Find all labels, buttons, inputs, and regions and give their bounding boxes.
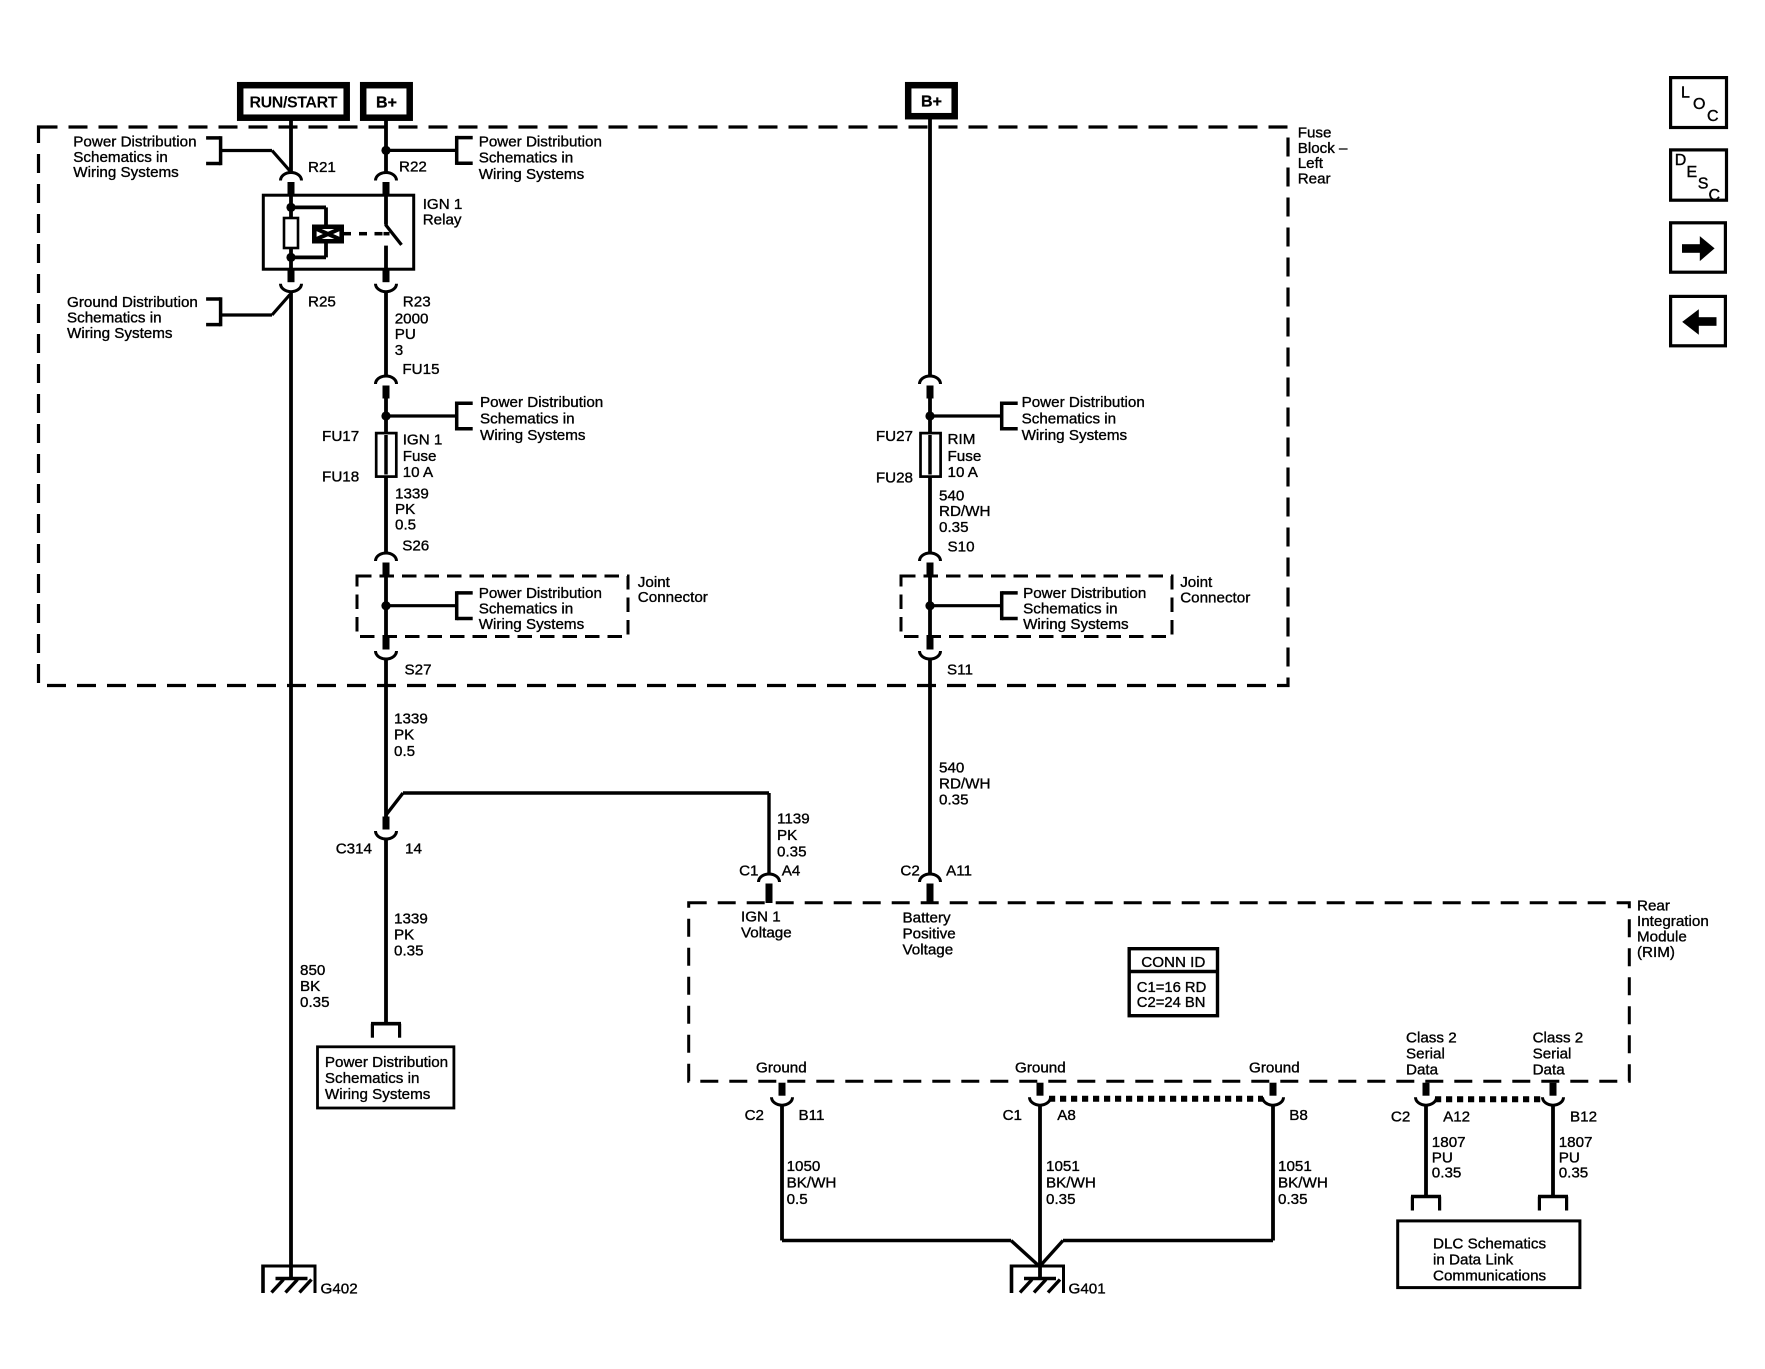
DESC icon box (1671, 150, 1727, 204)
svg-text:BK/WH: BK/WH (1046, 1174, 1096, 1191)
svg-text:1051: 1051 (1278, 1158, 1312, 1175)
svg-text:S27: S27 (405, 661, 432, 678)
connector R21 (281, 173, 302, 196)
svg-text:DLC Schematics: DLC Schematics (1433, 1235, 1547, 1252)
connector B8 (1263, 1083, 1284, 1106)
connector R25 (281, 269, 302, 292)
label Battery Positive Voltage (903, 909, 956, 958)
svg-text:0.5: 0.5 (787, 1191, 808, 1208)
label wire 1339 PK 0.5 (395, 485, 429, 533)
wire loop right upper (324, 207, 328, 224)
svg-text:1339: 1339 (394, 710, 428, 727)
label Class 2 Serial Data (A12) (1406, 1029, 1457, 1078)
power feed box B+ (right) (908, 85, 955, 116)
wire-end bracket (B12) (1538, 1197, 1568, 1211)
svg-text:Joint: Joint (1180, 574, 1213, 591)
switch blade (385, 225, 401, 245)
svg-text:14: 14 (405, 840, 422, 857)
relay coil (312, 225, 344, 244)
svg-text:IGN 1: IGN 1 (403, 431, 443, 448)
svg-text:RD/WH: RD/WH (939, 775, 990, 792)
wire B8 to G401 (1041, 1241, 1274, 1266)
svg-text:Data: Data (1406, 1061, 1439, 1078)
svg-text:Schematics in: Schematics in (325, 1070, 420, 1087)
svg-text:540: 540 (939, 759, 964, 776)
svg-text:FU27: FU27 (876, 428, 913, 445)
junction S10/S11 (925, 601, 934, 610)
fuse RIM 10A (921, 433, 941, 477)
joint connector dashed box (right) (901, 576, 1172, 637)
connector C2/A11 (920, 874, 941, 897)
label Joint Connector (right) (1180, 574, 1250, 607)
fuse block dashed boundary (39, 127, 1289, 686)
leader to label (FU15) (386, 414, 455, 417)
svg-text:A12: A12 (1443, 1108, 1470, 1125)
svg-text:Power Distribution: Power Distribution (480, 394, 603, 411)
wire fuse to S26 (384, 477, 388, 553)
wire FU15 to fuse (384, 399, 388, 434)
svg-text:A4: A4 (782, 862, 801, 879)
connector FU27 top (920, 376, 941, 399)
wire 850 BK to G402 (289, 292, 293, 1279)
svg-text:Wiring Systems: Wiring Systems (73, 164, 179, 181)
svg-text:Wiring Systems: Wiring Systems (480, 427, 586, 444)
label Power Distribution Schematics (joint right) (1023, 585, 1146, 633)
reference box Power Distribution Schematics in Wiring Systems (318, 1047, 454, 1108)
wire 1807 PU (A12) (1424, 1105, 1428, 1197)
svg-text:Schematics in: Schematics in (1022, 411, 1117, 428)
ground G401 (1012, 1265, 1064, 1294)
svg-text:G402: G402 (321, 1280, 358, 1297)
wire loop top (291, 205, 326, 209)
bracket (top left label) (206, 136, 221, 165)
svg-text:0.35: 0.35 (1432, 1165, 1462, 1182)
wire switch lower (384, 246, 388, 270)
label Class 2 Serial Data (B12) (1533, 1029, 1584, 1078)
connector S27 (376, 637, 397, 660)
svg-text:Schematics in: Schematics in (480, 411, 575, 428)
label Power Distribution Schematics (joint left) (479, 585, 602, 633)
svg-text:C1=16 RD: C1=16 RD (1137, 980, 1207, 996)
coil lead (344, 232, 351, 236)
svg-text:10 A: 10 A (948, 464, 979, 481)
svg-text:B11: B11 (799, 1107, 825, 1124)
svg-text:PK: PK (395, 501, 415, 518)
junction (FU15 feed) (381, 411, 390, 420)
svg-text:3: 3 (395, 342, 403, 359)
label Power Distribution Schematics (FU15) (480, 394, 603, 444)
label IGN 1 Fuse 10 A (403, 431, 443, 481)
label wire 2000 PU 3 (395, 310, 429, 358)
bracket (FU27 label) (1002, 402, 1018, 431)
svg-text:FU15: FU15 (402, 361, 439, 378)
svg-text:0.35: 0.35 (1559, 1165, 1589, 1182)
svg-text:Integration: Integration (1637, 913, 1709, 930)
svg-text:Class 2: Class 2 (1406, 1029, 1457, 1046)
svg-text:Wiring Systems: Wiring Systems (479, 616, 585, 633)
leader to label (joint right) (930, 604, 1000, 607)
leader to label (joint left) (386, 604, 455, 607)
svg-text:0.35: 0.35 (394, 942, 424, 959)
leader to R21 (221, 151, 290, 172)
Rear Integration Module dashed box (689, 903, 1630, 1081)
svg-text:PK: PK (394, 926, 414, 943)
leader to R25 (221, 295, 290, 316)
LOC icon box (1671, 78, 1727, 128)
svg-text:Rear: Rear (1637, 897, 1670, 914)
label wire 1050 BK/WH 0.5 (787, 1158, 837, 1208)
svg-text:FU17: FU17 (322, 428, 359, 445)
svg-text:R22: R22 (399, 158, 427, 175)
svg-text:R21: R21 (308, 159, 336, 176)
wire-end bracket (power dist) (371, 1024, 401, 1038)
fuse IGN 1 10A (376, 433, 396, 477)
label wire 1807 PU 0.35 (B12) (1559, 1134, 1593, 1182)
svg-text:Voltage: Voltage (741, 924, 792, 941)
svg-text:C1: C1 (739, 862, 758, 879)
svg-text:1807: 1807 (1432, 1134, 1466, 1151)
svg-text:540: 540 (939, 487, 964, 504)
svg-text:BK/WH: BK/WH (787, 1174, 837, 1191)
label wire 1339 PK 0.35 (394, 910, 428, 959)
junction S26/S27 (381, 601, 390, 610)
wire R23 to FU15 (384, 292, 388, 376)
junction (relay bottom left) (286, 253, 295, 262)
wire through fuse (384, 435, 388, 475)
svg-text:S: S (1698, 176, 1709, 193)
label wire 1051 BK/WH 0.35 (A8) (1046, 1158, 1096, 1208)
junction on R22 wire (381, 146, 390, 155)
svg-text:C: C (1707, 108, 1719, 125)
svg-text:FU28: FU28 (876, 469, 913, 486)
connector C1/A4 (759, 874, 780, 897)
svg-text:C: C (1709, 187, 1721, 204)
svg-text:Connector: Connector (638, 589, 708, 606)
ground G402 (263, 1265, 315, 1294)
svg-text:Class 2: Class 2 (1533, 1029, 1584, 1046)
wire loop bottom (291, 255, 326, 259)
svg-text:1339: 1339 (395, 485, 429, 502)
svg-text:0.35: 0.35 (1046, 1191, 1076, 1208)
resistor (relay coil suppression) (284, 218, 298, 248)
svg-text:850: 850 (300, 962, 325, 979)
svg-text:B12: B12 (1570, 1108, 1597, 1125)
svg-text:Fuse: Fuse (403, 448, 437, 465)
svg-text:Ground: Ground (756, 1059, 807, 1076)
connector FU15 (376, 376, 397, 399)
connector B12 (1543, 1083, 1564, 1106)
svg-text:R25: R25 (308, 293, 336, 310)
svg-text:0.35: 0.35 (939, 519, 969, 536)
branch wire to RIM C1/A4 (386, 793, 769, 874)
svg-text:1050: 1050 (787, 1158, 821, 1175)
svg-text:0.35: 0.35 (939, 791, 969, 808)
svg-text:RIM: RIM (948, 431, 976, 448)
svg-text:Wiring Systems: Wiring Systems (67, 325, 173, 342)
wire FU27 arc to fuse (928, 399, 932, 434)
svg-text:B+: B+ (376, 95, 397, 112)
next-page arrow icon (1671, 223, 1726, 272)
svg-text:Schematics in: Schematics in (479, 150, 574, 167)
wire S27 to C314 (384, 659, 388, 817)
label wire 540 RD/WH 0.35 (lower) (939, 759, 990, 808)
svg-text:PK: PK (777, 827, 797, 844)
label Power Distribution Schematics (top left) (73, 134, 196, 182)
leader to label (FU27) (930, 414, 1000, 417)
label Power Distribution Schematics (FU27) (1022, 394, 1145, 444)
svg-text:Power Distribution: Power Distribution (325, 1054, 448, 1071)
svg-text:A8: A8 (1057, 1107, 1076, 1124)
svg-text:CONN ID: CONN ID (1141, 954, 1205, 971)
stub C1/A4 into RIM (766, 884, 773, 903)
label IGN 1 Voltage (741, 908, 792, 941)
svg-text:0.35: 0.35 (1278, 1191, 1308, 1208)
svg-text:Connector: Connector (1180, 590, 1250, 607)
label wire 1051 BK/WH 0.35 (B8) (1278, 1158, 1328, 1208)
svg-text:Data: Data (1533, 1061, 1566, 1078)
wire 1051 BK/WH (A8) (1038, 1105, 1042, 1279)
svg-text:Ground: Ground (1015, 1059, 1066, 1076)
label wire 1139 PK 0.35 (777, 810, 810, 860)
bracket (ground dist label) (206, 297, 221, 326)
junction (relay top left) (286, 203, 295, 212)
svg-text:PK: PK (394, 726, 414, 743)
wire B+ to R22 (384, 118, 388, 173)
bracket (joint left label) (457, 591, 473, 620)
svg-text:0.5: 0.5 (394, 743, 415, 760)
wire relay pin R21 to resistor (289, 195, 293, 218)
svg-text:0.35: 0.35 (300, 994, 330, 1011)
svg-text:Rear: Rear (1298, 170, 1331, 187)
svg-text:Ground: Ground (1249, 1059, 1300, 1076)
svg-text:Power Distribution: Power Distribution (479, 585, 602, 602)
svg-text:A11: A11 (946, 862, 972, 879)
wire fuse to S10 (928, 477, 932, 553)
svg-text:Positive: Positive (903, 925, 956, 942)
wire 1050 BK/WH (780, 1105, 784, 1241)
connector S11 (920, 637, 941, 660)
dotted internal link A8-B8 (1049, 1096, 1263, 1102)
dotted internal link A12-B12 (1435, 1096, 1543, 1102)
wire resistor to relay pin R25 (289, 248, 293, 269)
label Fuse Block - Left Rear (1298, 125, 1348, 188)
svg-text:BK: BK (300, 978, 320, 995)
svg-text:1139: 1139 (777, 810, 810, 827)
svg-text:PU: PU (395, 326, 416, 343)
svg-text:R23: R23 (403, 293, 431, 310)
wire loop right lower (324, 244, 328, 258)
svg-text:D: D (1675, 152, 1687, 169)
svg-text:C2: C2 (900, 862, 919, 879)
wire RUN/START to R21 (289, 118, 293, 173)
svg-text:O: O (1693, 96, 1705, 113)
power feed box B+ (left) (363, 85, 410, 118)
connector C2/A12 (1416, 1083, 1437, 1106)
label Rear Integration Module (RIM) (1637, 897, 1709, 961)
svg-text:Relay: Relay (423, 211, 462, 228)
label Joint Connector (left) (638, 574, 708, 606)
svg-text:RD/WH: RD/WH (939, 503, 990, 520)
svg-text:Wiring Systems: Wiring Systems (479, 166, 585, 183)
leader to label (R22) (386, 149, 455, 152)
svg-text:0.5: 0.5 (395, 517, 416, 534)
svg-text:C2: C2 (745, 1107, 764, 1124)
connector C2/B11 (772, 1083, 793, 1106)
svg-text:Schematics in: Schematics in (479, 600, 574, 617)
svg-text:B+: B+ (921, 94, 942, 111)
svg-text:Wiring Systems: Wiring Systems (1023, 616, 1129, 633)
svg-text:Wiring Systems: Wiring Systems (325, 1086, 431, 1103)
wire 1807 PU (B12) (1551, 1105, 1555, 1197)
label Power Distribution Schematics (R22) (479, 133, 602, 183)
svg-text:Voltage: Voltage (903, 941, 954, 958)
wire C314 to power dist box (384, 839, 388, 1024)
label wire 1339 PK 0.5 (lower) (394, 710, 428, 760)
svg-text:Battery: Battery (903, 909, 952, 926)
svg-text:E: E (1687, 164, 1698, 181)
svg-text:S26: S26 (402, 537, 429, 554)
svg-text:Power Distribution: Power Distribution (1023, 585, 1146, 602)
svg-text:Power Distribution: Power Distribution (1022, 394, 1145, 411)
svg-text:in Data Link: in Data Link (1433, 1251, 1514, 1268)
svg-text:Serial: Serial (1533, 1045, 1572, 1062)
svg-text:G401: G401 (1069, 1280, 1106, 1297)
svg-text:BK/WH: BK/WH (1278, 1174, 1328, 1191)
svg-text:C314: C314 (336, 840, 372, 857)
wire switch upper (384, 195, 388, 225)
wire through joint connector (right) (928, 576, 932, 637)
svg-text:C2: C2 (1391, 1108, 1410, 1125)
wire 1051 BK/WH (B8) (1271, 1105, 1275, 1241)
svg-text:2000: 2000 (395, 310, 429, 327)
connector R23 (376, 269, 397, 292)
wire S11 to RIM C2/A11 (928, 659, 932, 874)
svg-text:1807: 1807 (1559, 1134, 1593, 1151)
svg-text:Schematics in: Schematics in (1023, 600, 1118, 617)
bracket (R22 label) (457, 136, 473, 165)
junction (FU27 feed) (925, 411, 934, 420)
wire through joint connector (left) (384, 576, 388, 637)
reference box DLC Schematics in Data Link Communications (1398, 1221, 1580, 1288)
svg-text:IGN 1: IGN 1 (741, 908, 781, 925)
svg-text:S10: S10 (948, 538, 975, 555)
label wire 1807 PU 0.35 (A12) (1432, 1134, 1466, 1182)
joint connector dashed box (left) (357, 576, 628, 637)
bracket (joint right label) (1002, 591, 1018, 620)
label RIM Fuse 10 A (948, 431, 982, 481)
dashed actuation link (359, 232, 390, 236)
stub C2/A11 into RIM (927, 884, 934, 903)
bracket (FU15 label) (457, 402, 473, 431)
svg-text:0.35: 0.35 (777, 843, 807, 860)
svg-text:RUN/START: RUN/START (250, 95, 338, 112)
svg-text:B8: B8 (1289, 1107, 1308, 1124)
label wire 850 BK 0.35 (300, 962, 330, 1011)
power feed box RUN/START (240, 85, 347, 118)
connector S26 (376, 553, 397, 576)
connector C314 (376, 817, 397, 840)
svg-text:Serial: Serial (1406, 1045, 1445, 1062)
label IGN 1 Relay (423, 196, 463, 228)
label wire 540 RD/WH 0.35 (939, 487, 990, 536)
connector S10 (920, 553, 941, 576)
svg-text:C1: C1 (1003, 1107, 1022, 1124)
svg-text:1051: 1051 (1046, 1158, 1080, 1175)
connector C1/A8 (1030, 1083, 1051, 1106)
wire B11 to G401 (782, 1241, 1039, 1266)
connector R22 (376, 173, 397, 196)
wire B+ to FU27 (928, 117, 932, 377)
svg-text:L: L (1681, 85, 1690, 102)
svg-text:FU18: FU18 (322, 468, 359, 485)
svg-text:Power Distribution: Power Distribution (479, 133, 602, 150)
wire-end bracket (A12) (1411, 1197, 1441, 1211)
svg-text:10 A: 10 A (403, 464, 434, 481)
svg-text:Module: Module (1637, 928, 1687, 945)
svg-text:Fuse: Fuse (948, 448, 982, 465)
label Ground Distribution Schematics (67, 294, 198, 342)
svg-text:(RIM): (RIM) (1637, 944, 1675, 961)
svg-text:C2=24 BN: C2=24 BN (1137, 995, 1206, 1011)
wire through RIM fuse (928, 435, 932, 475)
relay box IGN 1 (263, 195, 413, 269)
svg-text:Communications: Communications (1433, 1267, 1547, 1284)
svg-text:1339: 1339 (394, 910, 428, 927)
prev-page arrow icon (1671, 296, 1726, 345)
svg-text:Wiring Systems: Wiring Systems (1022, 427, 1128, 444)
CONN ID table (1129, 949, 1217, 1016)
svg-text:S11: S11 (947, 661, 973, 678)
